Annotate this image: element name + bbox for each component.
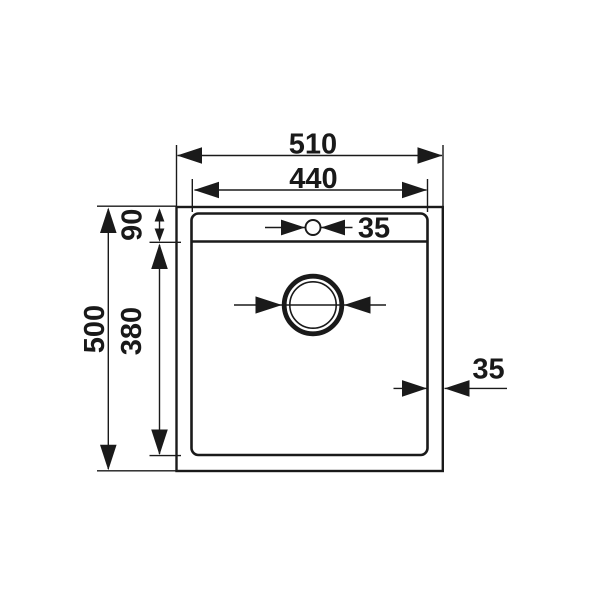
svg-text:90: 90: [116, 209, 148, 241]
svg-text:380: 380: [116, 307, 148, 355]
svg-text:440: 440: [289, 163, 337, 195]
svg-text:510: 510: [289, 128, 337, 160]
svg-text:500: 500: [79, 305, 111, 353]
svg-text:35: 35: [358, 213, 390, 245]
svg-text:35: 35: [472, 354, 504, 386]
